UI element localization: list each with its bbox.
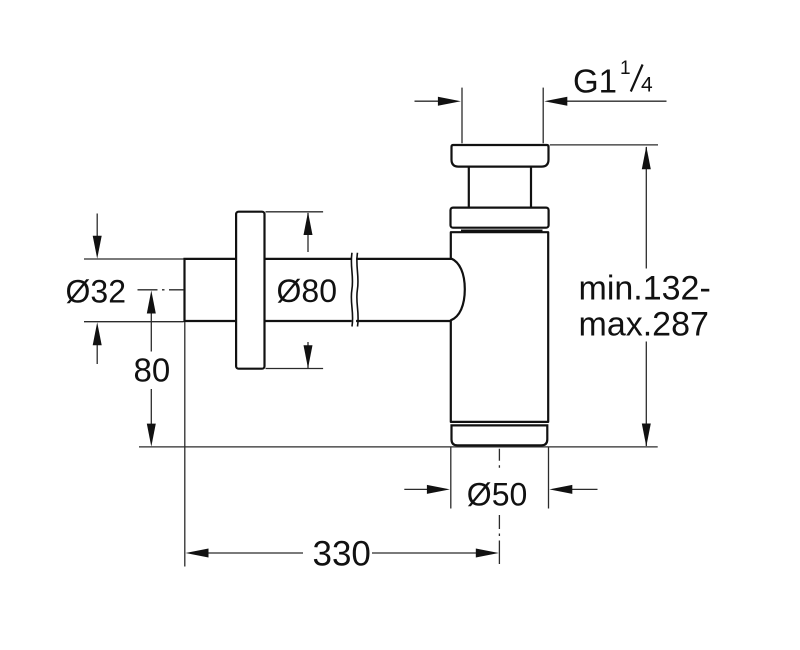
arrow min-max down [642,424,651,447]
dimension line 330 left [208,552,303,554]
extension line G1 right [542,88,544,144]
svg-text:4: 4 [641,74,653,97]
reference line bottom level [139,446,658,448]
arrow D32 up [93,322,102,345]
dimension line D50 right tail [572,488,598,490]
extension line D32 top [84,258,184,260]
arrow D80 down [304,345,313,368]
arrow 80 up [147,291,156,314]
extension line D80 top [266,211,324,213]
arrow G1 left [438,97,461,106]
arrow G1 right [544,97,567,106]
centerline trap axis lower [498,515,500,564]
label G1 1/4 [573,58,653,100]
neck between flange and collar [469,164,531,210]
dimension line min-max lower [645,342,647,447]
dimension line 330 right [372,552,476,554]
wall rosette flange [236,212,264,369]
svg-text:1: 1 [620,58,631,79]
bottom cap [452,425,548,445]
arrow D50 right [427,485,450,494]
pipe break wavy line right [357,253,358,327]
pipe break wavy line left [351,253,352,327]
extension line D32 bottom [84,321,184,323]
dimension line G1 left tail [415,100,441,102]
dimension line min-max upper [645,147,647,269]
dimension line D80 lower [307,342,309,368]
extension line D50 left [450,448,452,509]
centerline trap axis upper [498,449,500,470]
dimension line D80 upper [307,213,309,252]
svg-text:Ø32: Ø32 [66,273,126,309]
arrow D80 up [304,212,313,235]
collar nut [451,208,549,228]
dimension line 80 upper [150,313,152,352]
centerline pipe axis [138,289,184,291]
dimension line G1 right tail [566,100,667,102]
extension line D80 bottom [266,368,324,370]
svg-text:G1: G1 [573,63,617,100]
dimension line D32 above [96,214,98,237]
arrow D32 down [93,236,102,259]
wire: inlet pipe outline [185,259,451,321]
arrow min-max up [642,146,651,169]
svg-text:Ø80: Ø80 [277,273,337,309]
svg-text:min.132-: min.132- [579,270,711,308]
top flange cap [452,145,549,167]
svg-text:Ø50: Ø50 [467,477,527,513]
svg-text:80: 80 [134,351,171,388]
trap body with inlet bulge [451,232,548,422]
dimension line D32 below [96,345,98,365]
svg-text:330: 330 [313,535,371,574]
svg-text:max.287: max.287 [579,305,709,343]
reference line top flange level [550,144,658,146]
dimension line 80 lower [150,389,152,424]
seam line under collar [461,230,543,232]
arrow D50 left [549,485,572,494]
dimension line D50 left tail [404,488,428,490]
extension line 330 left [184,322,186,567]
arrow 80 down [147,424,156,447]
arrowheads [93,97,651,558]
extension line D50 right [548,448,550,509]
arrow 330 right [476,549,499,558]
arrow 330 left [186,549,209,558]
label min.132-max.287 [579,270,711,344]
thin dimension and extension lines [84,88,667,567]
extension line G1 left [461,88,463,144]
